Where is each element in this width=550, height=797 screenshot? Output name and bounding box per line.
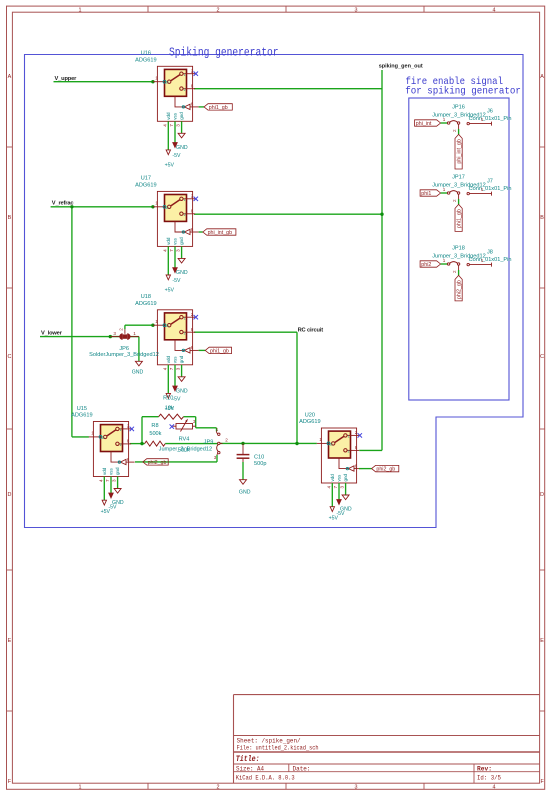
svg-text:2: 2 xyxy=(348,450,350,454)
svg-text:1: 1 xyxy=(79,7,82,13)
svg-text:File: untitled_2.kicad_sch: File: untitled_2.kicad_sch xyxy=(237,745,319,752)
svg-text:C: C xyxy=(7,354,11,360)
svg-text:V_lower: V_lower xyxy=(41,331,63,337)
svg-text:500k: 500k xyxy=(149,431,161,437)
svg-text:7: 7 xyxy=(333,486,338,489)
svg-text:phi1_gb: phi1_gb xyxy=(210,349,229,355)
svg-text:R10: R10 xyxy=(163,395,173,401)
svg-text:ADG619: ADG619 xyxy=(135,183,156,189)
svg-text:2: 2 xyxy=(191,68,194,73)
svg-text:phi_int_gb: phi_int_gb xyxy=(457,139,463,164)
svg-text:Size: A4: Size: A4 xyxy=(236,766,264,773)
svg-text:2: 2 xyxy=(184,88,186,92)
svg-text:D: D xyxy=(7,492,11,498)
svg-text:U16: U16 xyxy=(141,51,151,57)
svg-text:J6: J6 xyxy=(487,108,493,114)
svg-text:vss: vss xyxy=(109,468,114,476)
svg-text:U15: U15 xyxy=(77,406,87,412)
svg-text:J7: J7 xyxy=(487,178,493,184)
svg-text:1: 1 xyxy=(155,76,158,81)
svg-text:phi2_gb: phi2_gb xyxy=(457,280,463,299)
svg-text:6: 6 xyxy=(127,457,130,462)
svg-text:B: B xyxy=(8,215,12,221)
svg-text:1: 1 xyxy=(348,435,350,439)
svg-text:+5V: +5V xyxy=(165,287,175,293)
svg-text:Jumper_3_Bridged12: Jumper_3_Bridged12 xyxy=(159,446,213,452)
svg-text:3: 3 xyxy=(214,455,217,460)
svg-text:for spiking generator: for spiking generator xyxy=(405,86,521,98)
svg-text:JP16: JP16 xyxy=(452,104,465,110)
svg-text:-5V: -5V xyxy=(172,396,181,402)
svg-text:1: 1 xyxy=(133,331,136,336)
svg-text:7: 7 xyxy=(169,249,174,252)
svg-text:2: 2 xyxy=(120,443,122,447)
svg-text:3: 3 xyxy=(355,785,358,791)
svg-text:3: 3 xyxy=(193,419,196,424)
svg-text:U18: U18 xyxy=(141,294,151,300)
svg-text:U20: U20 xyxy=(305,412,315,418)
svg-text:1: 1 xyxy=(319,437,322,442)
svg-text:V_refrac: V_refrac xyxy=(52,201,74,207)
svg-text:3: 3 xyxy=(176,249,181,252)
svg-text:1: 1 xyxy=(79,785,82,791)
svg-text:7: 7 xyxy=(169,367,174,370)
svg-text:phi2_gb: phi2_gb xyxy=(148,460,167,466)
svg-text:2: 2 xyxy=(184,213,186,217)
svg-text:JP9: JP9 xyxy=(204,439,214,445)
svg-text:1: 1 xyxy=(481,258,484,263)
svg-text:vdd: vdd xyxy=(166,237,171,245)
svg-text:7: 7 xyxy=(105,479,110,482)
svg-text:C: C xyxy=(540,354,544,360)
svg-text:vdd: vdd xyxy=(166,112,171,120)
svg-text:2: 2 xyxy=(191,312,194,317)
svg-text:+5V: +5V xyxy=(101,509,111,515)
svg-text:phi1_gb: phi1_gb xyxy=(457,209,463,228)
svg-text:gnd: gnd xyxy=(343,473,348,481)
svg-text:3: 3 xyxy=(176,367,181,370)
svg-text:10k: 10k xyxy=(165,405,174,411)
svg-text:Title:: Title: xyxy=(236,754,260,764)
svg-text:+5V: +5V xyxy=(165,162,175,168)
svg-text:ADG619: ADG619 xyxy=(71,413,92,419)
svg-text:phi2_gb: phi2_gb xyxy=(376,467,395,473)
svg-text:2: 2 xyxy=(127,424,130,429)
svg-text:4: 4 xyxy=(493,7,496,13)
svg-text:3: 3 xyxy=(176,124,181,127)
svg-text:1: 1 xyxy=(443,187,446,192)
svg-text:phi2: phi2 xyxy=(421,262,431,268)
svg-text:Sheet: /spike_gen/: Sheet: /spike_gen/ xyxy=(237,738,301,745)
svg-text:1: 1 xyxy=(91,431,94,436)
svg-text:1: 1 xyxy=(155,319,158,324)
svg-text:D: D xyxy=(540,492,544,498)
svg-text:phi_int_gb: phi_int_gb xyxy=(208,230,233,236)
svg-text:vss: vss xyxy=(173,356,178,364)
svg-text:V_upper: V_upper xyxy=(55,76,78,82)
svg-text:Rev:: Rev: xyxy=(477,766,492,773)
svg-text:2: 2 xyxy=(184,331,186,335)
svg-text:2: 2 xyxy=(452,129,457,132)
svg-text:A: A xyxy=(8,74,12,80)
svg-text:8: 8 xyxy=(127,439,130,444)
svg-text:4: 4 xyxy=(98,479,103,482)
svg-text:phi_int: phi_int xyxy=(416,121,432,127)
svg-text:8: 8 xyxy=(191,327,194,332)
svg-text:JP17: JP17 xyxy=(452,174,465,180)
svg-text:C10: C10 xyxy=(254,454,264,460)
svg-text:1: 1 xyxy=(184,198,186,202)
svg-text:6: 6 xyxy=(191,345,194,350)
svg-text:1: 1 xyxy=(184,316,186,320)
svg-text:1: 1 xyxy=(481,117,484,122)
svg-text:A: A xyxy=(540,74,544,80)
svg-text:gnd: gnd xyxy=(179,237,184,245)
svg-text:4: 4 xyxy=(493,785,496,791)
svg-text:4: 4 xyxy=(162,249,167,252)
svg-text:B: B xyxy=(540,215,544,221)
svg-text:vss: vss xyxy=(173,237,178,245)
svg-text:vss: vss xyxy=(173,112,178,120)
svg-text:6: 6 xyxy=(191,227,194,232)
svg-text:E: E xyxy=(540,638,544,644)
svg-text:GND: GND xyxy=(132,370,144,376)
svg-text:ADG619: ADG619 xyxy=(299,419,320,425)
svg-text:1: 1 xyxy=(120,428,122,432)
svg-text:2: 2 xyxy=(355,430,358,435)
svg-text:Spiking genererator: Spiking genererator xyxy=(169,45,279,59)
svg-text:2: 2 xyxy=(225,438,228,443)
svg-text:1: 1 xyxy=(155,201,158,206)
svg-text:Id: 3/5: Id: 3/5 xyxy=(477,774,501,781)
svg-text:phi1: phi1 xyxy=(421,191,431,197)
svg-text:1: 1 xyxy=(184,73,186,77)
svg-text:GND: GND xyxy=(239,489,251,495)
svg-text:4: 4 xyxy=(326,486,331,489)
svg-text:RV4: RV4 xyxy=(179,436,190,442)
svg-text:3: 3 xyxy=(113,331,116,336)
svg-text:JP6: JP6 xyxy=(119,346,129,352)
svg-text:2: 2 xyxy=(217,7,220,13)
svg-text:3: 3 xyxy=(112,479,117,482)
svg-text:8: 8 xyxy=(355,445,358,450)
svg-text:phi1_gb: phi1_gb xyxy=(209,105,228,111)
svg-text:-5V: -5V xyxy=(172,278,181,284)
svg-text:+5V: +5V xyxy=(329,516,339,522)
svg-text:J8: J8 xyxy=(487,249,493,255)
svg-text:JP18: JP18 xyxy=(452,245,465,251)
svg-text:7: 7 xyxy=(169,124,174,127)
svg-text:2: 2 xyxy=(191,193,194,198)
svg-text:SolderJumper_3_Bridged12: SolderJumper_3_Bridged12 xyxy=(89,352,159,358)
svg-text:U17: U17 xyxy=(141,176,151,182)
svg-text:Conn_01x01_Pin: Conn_01x01_Pin xyxy=(469,186,512,192)
svg-text:2: 2 xyxy=(452,270,457,273)
svg-text:2: 2 xyxy=(118,328,123,331)
svg-text:1: 1 xyxy=(443,117,446,122)
svg-text:500p: 500p xyxy=(254,461,266,467)
svg-text:vdd: vdd xyxy=(166,356,171,364)
svg-text:3: 3 xyxy=(340,486,345,489)
svg-text:vdd: vdd xyxy=(330,474,335,482)
svg-text:gnd: gnd xyxy=(115,467,120,475)
svg-text:Conn_01x01_Pin: Conn_01x01_Pin xyxy=(469,116,512,122)
svg-text:R8: R8 xyxy=(151,423,158,429)
svg-text:vdd: vdd xyxy=(102,467,107,475)
svg-text:4: 4 xyxy=(162,367,167,370)
svg-text:ADG619: ADG619 xyxy=(135,301,156,307)
svg-text:2: 2 xyxy=(217,785,220,791)
svg-text:4: 4 xyxy=(162,124,167,127)
svg-text:8: 8 xyxy=(191,84,194,89)
svg-text:E: E xyxy=(8,638,12,644)
svg-text:8: 8 xyxy=(191,209,194,214)
svg-text:2: 2 xyxy=(452,199,457,202)
svg-text:vss: vss xyxy=(337,474,342,482)
svg-text:6: 6 xyxy=(355,463,358,468)
svg-text:6: 6 xyxy=(191,102,194,107)
svg-text:1: 1 xyxy=(216,427,219,432)
svg-text:1: 1 xyxy=(481,187,484,192)
svg-text:gnd: gnd xyxy=(179,112,184,120)
svg-text:3: 3 xyxy=(355,7,358,13)
svg-text:GND: GND xyxy=(176,145,188,151)
svg-text:Conn_01x01_Pin: Conn_01x01_Pin xyxy=(469,257,512,263)
svg-text:GND: GND xyxy=(176,270,188,276)
svg-text:RC circuit: RC circuit xyxy=(298,328,324,334)
svg-text:gnd: gnd xyxy=(179,355,184,363)
svg-text:ADG619: ADG619 xyxy=(135,57,156,63)
svg-text:1: 1 xyxy=(443,258,446,263)
svg-text:-5V: -5V xyxy=(172,153,181,159)
svg-text:spiking_gen_out: spiking_gen_out xyxy=(379,64,423,70)
svg-text:Date:: Date: xyxy=(293,766,311,773)
svg-text:KiCad E.D.A. 8.0.3: KiCad E.D.A. 8.0.3 xyxy=(236,774,295,781)
svg-text:GND: GND xyxy=(176,388,188,394)
